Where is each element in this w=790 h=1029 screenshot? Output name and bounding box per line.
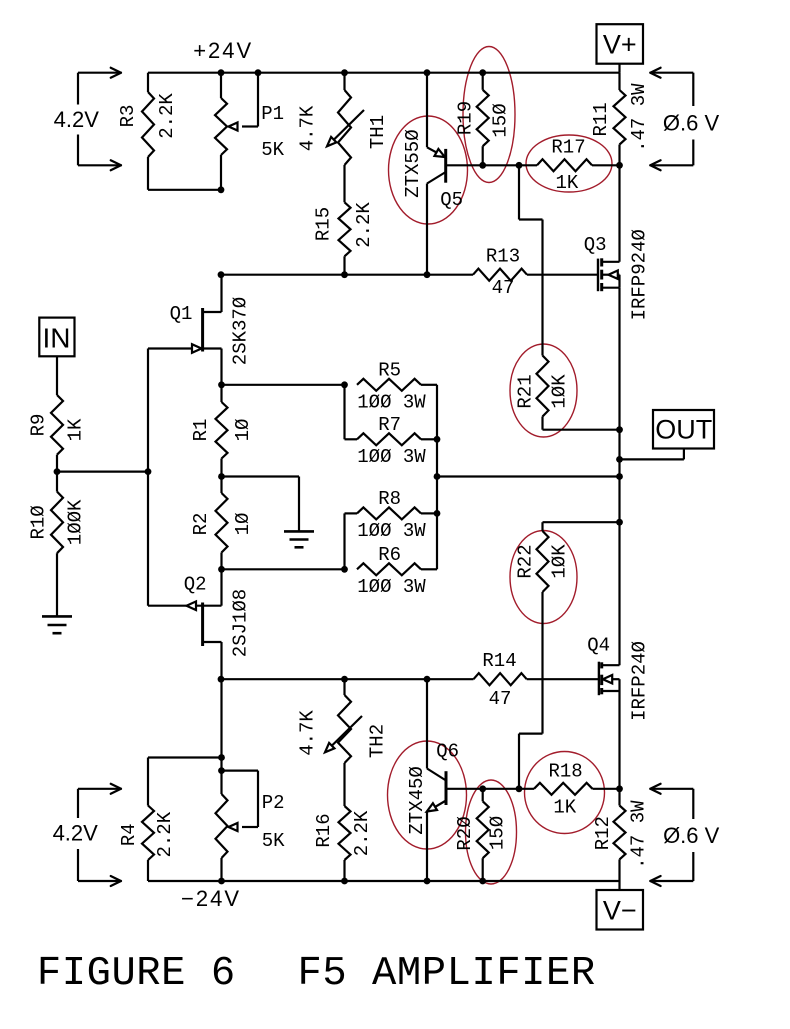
svg-text:R22: R22 <box>515 544 537 578</box>
resistor R14 47 <box>221 650 599 710</box>
junction dot OUT node <box>616 456 623 463</box>
resistor R13 47 <box>221 246 598 300</box>
thermistor TH2 4.7K <box>297 679 389 763</box>
svg-text:5K: 5K <box>262 830 285 852</box>
4.2V bracket top-left <box>78 68 121 171</box>
svg-text:2.2K: 2.2K <box>154 811 176 857</box>
resistor R6 100 3W <box>222 513 438 598</box>
transistor Q5 ZTX550 <box>402 73 483 275</box>
junction dot R17 right <box>616 162 623 169</box>
svg-text:1ØØ 3W: 1ØØ 3W <box>357 391 426 413</box>
svg-text:4.7K: 4.7K <box>297 105 319 151</box>
svg-text:V−: V− <box>603 895 637 925</box>
junction dot R14 Q6 column <box>424 676 431 683</box>
wire OUT node down to Q4 drain <box>618 430 620 666</box>
label -24V <box>181 886 241 911</box>
svg-text:OUT: OUT <box>655 415 712 445</box>
svg-text:Q5: Q5 <box>440 189 463 211</box>
wire center to R8 <box>436 477 438 514</box>
caption FIGURE 6 <box>37 951 236 997</box>
svg-text:R9: R9 <box>28 414 50 437</box>
svg-text:.47 3W: .47 3W <box>628 800 650 869</box>
svg-text:IN: IN <box>43 322 71 353</box>
svg-text:Q2: Q2 <box>184 574 207 596</box>
transistor Q1 2SK370 <box>148 275 251 385</box>
junction dot R4 branch <box>218 754 225 761</box>
label 0.6 V bottom <box>663 823 720 848</box>
junction dot P2 wiper branch <box>218 767 225 774</box>
resistor R12 .47 3W <box>592 789 650 881</box>
resistor R3 2.2K <box>117 73 221 190</box>
annotation ellipse around R18 <box>525 752 605 834</box>
annotation ellipse around Q6 <box>388 741 467 849</box>
terminal box V- <box>597 881 644 930</box>
potentiometer P2 5K <box>216 771 286 881</box>
junction dot R3/P1 bottom <box>218 186 225 193</box>
svg-text:2.2K: 2.2K <box>351 810 373 856</box>
junction dot Q1 source node <box>218 381 225 388</box>
annotation ellipse around R19 <box>463 47 515 183</box>
wire center node row <box>437 475 620 477</box>
4.2V bracket bottom-left <box>78 784 121 886</box>
svg-text:1ØK: 1ØK <box>549 544 571 579</box>
label 4.2V bottom <box>53 821 99 846</box>
resistor R19 150 <box>454 73 511 166</box>
svg-text:−24V: −24V <box>181 886 241 911</box>
svg-text:R8: R8 <box>378 488 401 510</box>
label +24V <box>193 38 253 63</box>
svg-text:1K: 1K <box>555 172 578 194</box>
wire -24V bottom rail <box>148 880 620 882</box>
svg-text:4.7K: 4.7K <box>297 710 319 756</box>
svg-text:47: 47 <box>492 277 515 299</box>
svg-text:R16: R16 <box>313 813 335 847</box>
svg-text:Ø.6 V: Ø.6 V <box>663 823 720 848</box>
svg-text:1ØK: 1ØK <box>549 374 571 409</box>
wire Q2 drain node down <box>220 679 222 770</box>
resistor R22 10K <box>515 522 620 789</box>
svg-text:2.2K: 2.2K <box>353 202 375 248</box>
junction dot Q6 emitter rail <box>424 878 431 885</box>
svg-text:2SJ1Ø8: 2SJ1Ø8 <box>229 589 251 657</box>
svg-text:1ØØ 3W: 1ØØ 3W <box>357 446 426 468</box>
junction dot R13 left <box>218 271 225 278</box>
junction dot R6 left <box>341 566 348 573</box>
thermistor TH1 4.7K <box>297 73 389 165</box>
junction dot R1/R2 ground node <box>218 473 225 480</box>
junction dot P2 bottom rail <box>218 878 225 885</box>
junction dot R19 bottom <box>479 162 486 169</box>
transistor Q6 ZTX450 <box>406 679 483 881</box>
wire gate bus <box>147 349 149 606</box>
label 4.2V top <box>54 107 100 132</box>
svg-text:Q1: Q1 <box>170 303 193 325</box>
svg-text:R14: R14 <box>482 650 516 672</box>
wire R17 junction to R21 column <box>519 165 543 355</box>
resistor R10 100K <box>28 472 87 617</box>
ground center <box>284 531 314 547</box>
junction dot TH1 top <box>341 69 348 76</box>
svg-text:+24V: +24V <box>193 38 253 63</box>
svg-text:1K: 1K <box>553 797 576 819</box>
wire input node to gate bus <box>57 471 148 473</box>
wire Q3 drain down to OUT node <box>618 288 620 430</box>
junction dot gate bus <box>145 468 152 475</box>
svg-text:R5: R5 <box>378 359 401 381</box>
resistor R20 150 <box>454 789 509 881</box>
junction dot R20 top <box>479 785 486 792</box>
junction dot R18 left <box>516 785 523 792</box>
svg-text:TH1: TH1 <box>367 115 389 149</box>
resistor R1 10 <box>190 385 254 477</box>
svg-text:Q4: Q4 <box>587 634 610 656</box>
junction dot R21 output <box>616 426 623 433</box>
junction dot Q5 collector R13 row <box>424 271 431 278</box>
junction dot R14 TH column <box>341 676 348 683</box>
svg-text:2.2K: 2.2K <box>156 93 178 139</box>
junction dot R17 left <box>516 162 523 169</box>
svg-text:V+: V+ <box>603 30 637 60</box>
svg-text:1ØØK: 1ØØK <box>64 499 86 545</box>
resistor R4 2.2K <box>118 758 222 882</box>
svg-text:1ØØ 3W: 1ØØ 3W <box>357 576 426 598</box>
resistor R15 2.2K <box>312 165 374 275</box>
potentiometer P1 5K <box>215 73 285 190</box>
svg-text:R1Ø: R1Ø <box>28 505 50 539</box>
resistor R21 10K <box>515 356 620 430</box>
junction dot R9/R10 <box>54 468 61 475</box>
resistor R5 100 3W <box>222 359 438 413</box>
transistor Q3 IRFP9240 <box>584 165 651 320</box>
svg-text:1K: 1K <box>64 418 86 441</box>
svg-text:ZTX55Ø: ZTX55Ø <box>402 129 424 197</box>
terminal box OUT <box>620 410 715 459</box>
svg-text:R4: R4 <box>118 823 140 846</box>
svg-text:R6: R6 <box>378 544 401 566</box>
svg-text:1Ø: 1Ø <box>232 513 254 536</box>
junction dot R7 right <box>434 436 441 443</box>
svg-text:4.2V: 4.2V <box>54 107 100 132</box>
svg-text:TH2: TH2 <box>366 724 388 758</box>
wire Q4 source to R18 node <box>618 691 620 789</box>
svg-text:F5 AMPLIFIER: F5 AMPLIFIER <box>298 951 596 997</box>
svg-text:15Ø: 15Ø <box>487 816 509 850</box>
svg-text:R19: R19 <box>454 101 476 135</box>
junction dot P1 top <box>218 69 225 76</box>
svg-text:R2Ø: R2Ø <box>454 816 476 850</box>
resistor R18 1K <box>483 761 620 819</box>
junction dot Q5 emitter rail <box>424 69 431 76</box>
svg-text:Q6: Q6 <box>436 740 459 762</box>
label 0.6 V top <box>663 110 720 135</box>
svg-text:IRFP924Ø: IRFP924Ø <box>629 229 651 320</box>
svg-text:5K: 5K <box>261 139 284 161</box>
resistor R11 .47 3W <box>590 73 650 166</box>
svg-text:R21: R21 <box>515 374 537 408</box>
0.6V bracket bottom-right <box>650 784 693 886</box>
svg-text:Q3: Q3 <box>584 234 607 256</box>
svg-text:R18: R18 <box>548 761 582 783</box>
svg-text:R17: R17 <box>551 137 585 159</box>
annotation ellipse around R22 <box>510 531 577 624</box>
svg-text:R13: R13 <box>486 246 520 268</box>
junction dot R22 output <box>616 519 623 526</box>
junction dot R18 right <box>616 785 623 792</box>
junction dot R8 right <box>434 510 441 517</box>
junction dot R13 TH column <box>341 271 348 278</box>
terminal box IN <box>39 318 74 395</box>
svg-text:.47 3W: .47 3W <box>628 83 650 152</box>
svg-text:IRFP24Ø: IRFP24Ø <box>629 641 651 721</box>
svg-text:15Ø: 15Ø <box>490 103 512 137</box>
svg-text:R3: R3 <box>117 105 139 128</box>
junction dot R19 top <box>479 69 486 76</box>
resistor R17 1K <box>483 137 620 195</box>
terminal box V+ <box>597 24 644 72</box>
svg-text:4.2V: 4.2V <box>53 821 99 846</box>
resistor R2 10 <box>190 477 254 570</box>
wire R7 node to center node <box>436 439 438 476</box>
wire +24V top rail <box>148 72 620 74</box>
svg-text:1Ø: 1Ø <box>232 419 254 442</box>
svg-text:1ØØ 3W: 1ØØ 3W <box>357 520 426 542</box>
junction dot R20 bottom <box>479 878 486 885</box>
ground input <box>42 616 72 633</box>
svg-text:R2: R2 <box>190 513 212 536</box>
svg-text:ZTX45Ø: ZTX45Ø <box>406 766 428 834</box>
junction dot center node left <box>434 473 441 480</box>
resistor R16 2.2K <box>313 763 373 881</box>
0.6V bracket top-right <box>650 68 693 171</box>
svg-text:47: 47 <box>489 688 512 710</box>
transistor Q2 2SJ108 <box>148 569 251 679</box>
svg-text:2SK37Ø: 2SK37Ø <box>229 297 251 365</box>
svg-text:R11: R11 <box>590 102 612 136</box>
caption F5 AMPLIFIER <box>298 951 596 997</box>
junction dot R14 left <box>218 676 225 683</box>
annotation ellipse around R17 <box>526 135 612 192</box>
svg-text:R7: R7 <box>378 414 401 436</box>
svg-text:Ø.6 V: Ø.6 V <box>663 110 720 135</box>
wire to center ground <box>222 477 300 532</box>
junction dot Q2 source node <box>218 566 225 573</box>
resistor R7 100 3W <box>345 385 438 468</box>
transistor Q4 IRFP240 <box>587 634 651 721</box>
junction dot R5 left <box>341 381 348 388</box>
annotation ellipse around R21 <box>510 344 577 437</box>
svg-text:R15: R15 <box>312 207 334 241</box>
resistor R8 100 3W <box>345 488 438 542</box>
svg-text:R12: R12 <box>592 816 614 850</box>
junction dot center node right <box>616 473 623 480</box>
junction dot P1 wiper to rail <box>255 69 262 76</box>
svg-text:P1: P1 <box>261 103 284 125</box>
annotation ellipse around Q5 <box>389 116 468 224</box>
svg-text:P2: P2 <box>262 792 285 814</box>
annotation ellipse around R20 <box>466 780 517 884</box>
svg-text:R1: R1 <box>190 419 212 442</box>
junction dot R16 bottom rail <box>341 878 348 885</box>
svg-text:FIGURE 6: FIGURE 6 <box>37 951 236 997</box>
resistor R9 1K <box>28 395 87 472</box>
